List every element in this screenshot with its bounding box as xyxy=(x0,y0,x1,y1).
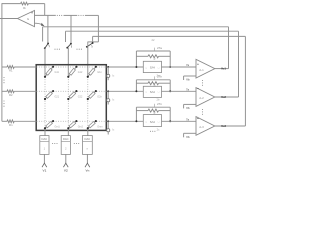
input arrow V3 xyxy=(85,163,90,167)
wire row 1 from rail xyxy=(2,66,7,68)
crossbar array block 20 xyxy=(36,65,106,131)
wire bias tail row 3 xyxy=(107,132,109,135)
junction row 3 bias tap xyxy=(107,120,109,122)
memristor cell G12 xyxy=(67,66,83,78)
bus inverting-sense segment 1 xyxy=(35,14,56,16)
divider DAC 1 xyxy=(40,140,49,142)
svg-text:Rn: Rn xyxy=(9,123,13,127)
column 3 stub to DAC xyxy=(87,128,89,135)
resistor row 3 xyxy=(7,120,14,123)
svg-text:A-3: A-3 xyxy=(199,125,204,129)
input arrow V1 xyxy=(42,163,47,167)
svg-text:G2n: G2n xyxy=(97,96,102,99)
memristor cell G11 xyxy=(44,66,60,78)
svg-text:7a: 7a xyxy=(186,63,190,67)
wire row 1 from array to integrator xyxy=(107,66,144,68)
wire feedback riser Vo1 xyxy=(228,27,230,69)
op-amp A2 xyxy=(196,88,215,107)
svg-text:G22: G22 xyxy=(78,96,83,99)
wire Vo2 drop to switch 2 xyxy=(65,31,67,42)
ellipsis on sense bus xyxy=(57,15,58,16)
DAC block column 3 xyxy=(83,136,93,155)
bus Vo2 feedback xyxy=(66,30,239,32)
junction feedback left row 2 xyxy=(135,90,137,92)
op-amp A2 input marks xyxy=(197,87,199,90)
wire row 2 from array to integrator xyxy=(107,90,144,92)
wire row 3 to op-amp A3 xyxy=(162,120,197,122)
wire column 1 into array xyxy=(44,48,46,77)
svg-text:Vo1: Vo1 xyxy=(221,67,226,71)
memristor cell Gmn xyxy=(87,120,103,129)
junction feedback right row 3 xyxy=(169,120,171,122)
resistor Rf1 integrator feedback xyxy=(136,55,148,57)
wire output op-amp A2 xyxy=(215,96,239,98)
ellipsis between DAC 2 and 3 xyxy=(74,143,75,144)
svg-text:Gm2: Gm2 xyxy=(78,126,84,129)
svg-text:Gmn: Gmn xyxy=(97,126,103,129)
svg-text:DAC: DAC xyxy=(42,137,48,141)
switch S1 column 1 xyxy=(47,43,49,45)
wire output op-amp A1 xyxy=(215,68,229,70)
wire sense drop column 2 xyxy=(70,15,72,43)
svg-text:DAC: DAC xyxy=(63,137,69,141)
svg-text:R: R xyxy=(154,58,156,61)
divider DAC 2 xyxy=(61,140,70,142)
wire feedback top right segment xyxy=(28,3,44,5)
op-amp A3 xyxy=(196,117,215,136)
memristor cell G2n xyxy=(87,90,103,100)
svg-text:G1n: G1n xyxy=(97,71,102,74)
wire Vb stub op-amp A1 xyxy=(184,75,196,77)
bus inverting-sense segment 2 xyxy=(64,14,78,16)
row 3 wire inside array (dotted) xyxy=(37,120,107,122)
svg-text:G12: G12 xyxy=(78,71,83,74)
wire feedback riser Vo3 xyxy=(244,36,246,126)
svg-text:Vb: Vb xyxy=(186,78,190,82)
wire bias stub row 2 xyxy=(107,91,109,98)
junction feedback right row 1 xyxy=(169,66,171,68)
divider DAC 3 xyxy=(83,140,93,142)
memristor cell Gm1 xyxy=(44,120,60,129)
svg-text:27b: 27b xyxy=(157,75,162,79)
svg-text:S/H: S/H xyxy=(150,120,155,124)
tick to label 3 xyxy=(154,104,156,107)
wire bias stub row 1 xyxy=(107,67,109,74)
svg-text:V1: V1 xyxy=(43,169,47,173)
row 1 wire inside array (dotted) xyxy=(37,66,107,68)
wire row 3 from array to integrator xyxy=(107,120,144,122)
input arrow V2 xyxy=(63,163,68,167)
wire feedback top from output rail to Rf xyxy=(2,3,21,5)
wire U1 non-inverting stub with arrow xyxy=(35,23,43,25)
wire DAC 3 input xyxy=(86,154,88,163)
wire sense drop column 3 xyxy=(97,15,99,42)
wire Vb stub op-amp A2 xyxy=(184,103,196,105)
svg-text:A-2: A-2 xyxy=(199,96,204,100)
wire output rail left vertical xyxy=(1,3,3,121)
resistor Rf (left op-amp feedback) xyxy=(21,2,29,5)
DAC block column 1 xyxy=(40,136,49,155)
resistor Rf2 integrator feedback xyxy=(136,82,148,84)
ellipsis between switch 1 and 2 xyxy=(54,49,55,50)
svg-text:V2: V2 xyxy=(64,169,68,173)
memristor cell G21 xyxy=(44,90,60,100)
wire bias tail row 2 xyxy=(107,102,109,105)
wire DAC 1 input xyxy=(43,154,45,163)
tick to label 2 xyxy=(154,76,156,79)
vertical ellipsis rows gap 1 xyxy=(3,77,4,78)
sample-hold block 3 xyxy=(143,115,161,127)
wire sense jog column 3 xyxy=(88,41,99,43)
bus Vo3 feedback xyxy=(93,35,246,37)
wire Vo3 drop to switch 3 xyxy=(92,36,94,42)
tick to label 1 xyxy=(154,48,156,51)
integrator block 1 feedback loop wire xyxy=(136,50,170,52)
current source Ib row 3 xyxy=(107,129,110,132)
wire Vb stub op-amp A3 xyxy=(184,132,196,134)
wire row 3 into array xyxy=(14,120,36,122)
junction row 2 bias tap xyxy=(107,90,109,92)
wire feedback riser Vo2 xyxy=(238,31,240,97)
wire row 1 into array xyxy=(14,66,36,68)
svg-text:Vo2: Vo2 xyxy=(221,95,226,99)
svg-text:Vo3: Vo3 xyxy=(221,124,226,128)
svg-text:7a: 7a xyxy=(186,117,190,121)
junction feedback right row 2 xyxy=(169,90,171,92)
wire bias stub row 3 xyxy=(107,121,109,128)
op-amp A3 input marks xyxy=(197,117,199,120)
resistor row 1 xyxy=(7,66,14,69)
svg-text:Vn: Vn xyxy=(86,169,90,173)
junction row 1 bias tap xyxy=(107,66,109,68)
svg-text:Vb: Vb xyxy=(186,135,190,139)
current source Ib row 2 xyxy=(107,99,110,102)
wire sense drop column 1 xyxy=(47,15,49,43)
wire DAC 2 input xyxy=(65,154,67,163)
svg-text:7a: 7a xyxy=(186,87,190,91)
column 1 wire inside array (dotted) xyxy=(44,77,46,128)
op-amp U1 minus mark xyxy=(31,12,33,15)
wire bias tail row 1 xyxy=(107,78,109,81)
row 2 wire inside array (dotted) xyxy=(37,90,107,92)
wire row 1 to op-amp A1 xyxy=(162,66,197,68)
integrator block 2 feedback loop wire xyxy=(136,79,170,81)
ellipsis below block 3 xyxy=(150,131,151,132)
svg-text:G11: G11 xyxy=(55,71,60,74)
bus inverting-sense segment 3 xyxy=(85,14,99,16)
op-amp U1 (row driver, pointing left) xyxy=(18,11,35,27)
wire row 2 into array xyxy=(14,90,36,92)
svg-text:DAC: DAC xyxy=(85,137,91,141)
column 2 wire inside array (dotted) xyxy=(67,77,69,128)
wire column 2 into array xyxy=(67,48,69,77)
bus Vo1 feedback xyxy=(43,26,229,28)
sample-hold block 2 xyxy=(143,86,161,97)
wire feedback vertical into inverting input bus xyxy=(44,4,46,16)
svg-text:S/H: S/H xyxy=(150,66,155,70)
svg-text:S/H: S/H xyxy=(150,90,155,94)
memristor cell G1n xyxy=(87,66,103,78)
svg-text:27a: 27a xyxy=(157,46,162,50)
current source Ib row 1 xyxy=(107,74,110,77)
svg-text:Gm1: Gm1 xyxy=(55,126,61,129)
svg-text:A-1: A-1 xyxy=(199,68,204,72)
svg-text:Vb: Vb xyxy=(186,106,190,110)
resistor Rf3 integrator feedback xyxy=(136,110,148,112)
svg-text:27n: 27n xyxy=(157,102,162,106)
svg-text:R2: R2 xyxy=(9,93,13,97)
junction feedback left row 3 xyxy=(135,120,137,122)
vertical ellipsis rows gap 2 xyxy=(3,100,4,101)
integrator block 3 feedback loop wire xyxy=(136,106,170,108)
resistor row 2 xyxy=(7,90,14,93)
wire op-amp U1 output to left edge xyxy=(0,18,18,20)
junction feedback left row 1 xyxy=(135,66,137,68)
vertical ellipsis between A1 A2 xyxy=(202,80,203,81)
ellipsis on sense bus 2 xyxy=(78,15,79,16)
svg-text:R1: R1 xyxy=(9,69,13,73)
wire output op-amp A3 xyxy=(215,125,246,127)
column 3 wire inside array (dotted) xyxy=(87,77,89,128)
svg-text:G21: G21 xyxy=(55,96,60,99)
memristor cell G22 xyxy=(67,90,83,100)
wire row 2 from rail xyxy=(2,90,7,92)
op-amp A1 xyxy=(196,59,215,78)
wire Vo1 drop to switch 1 xyxy=(42,27,44,42)
sample-hold block 1 xyxy=(143,61,161,72)
column 2 stub to DAC xyxy=(67,128,69,135)
wire row 3 from rail xyxy=(2,120,7,122)
op-amp A1 input marks xyxy=(197,63,199,66)
switch S3 column 3 xyxy=(92,42,94,44)
vertical ellipsis between A2 A3 xyxy=(202,109,203,110)
ellipsis between switch 2 and 3 xyxy=(76,49,77,50)
memristor cell Gm2 xyxy=(67,120,83,129)
DAC block column 2 xyxy=(61,136,70,155)
switch S2 column 2 xyxy=(70,43,72,45)
column 1 stub to DAC xyxy=(44,128,46,135)
wire column 3 into array xyxy=(87,42,89,77)
ellipsis between DAC 1 and 2 xyxy=(52,143,53,144)
wire row 2 to op-amp A2 xyxy=(162,90,197,92)
